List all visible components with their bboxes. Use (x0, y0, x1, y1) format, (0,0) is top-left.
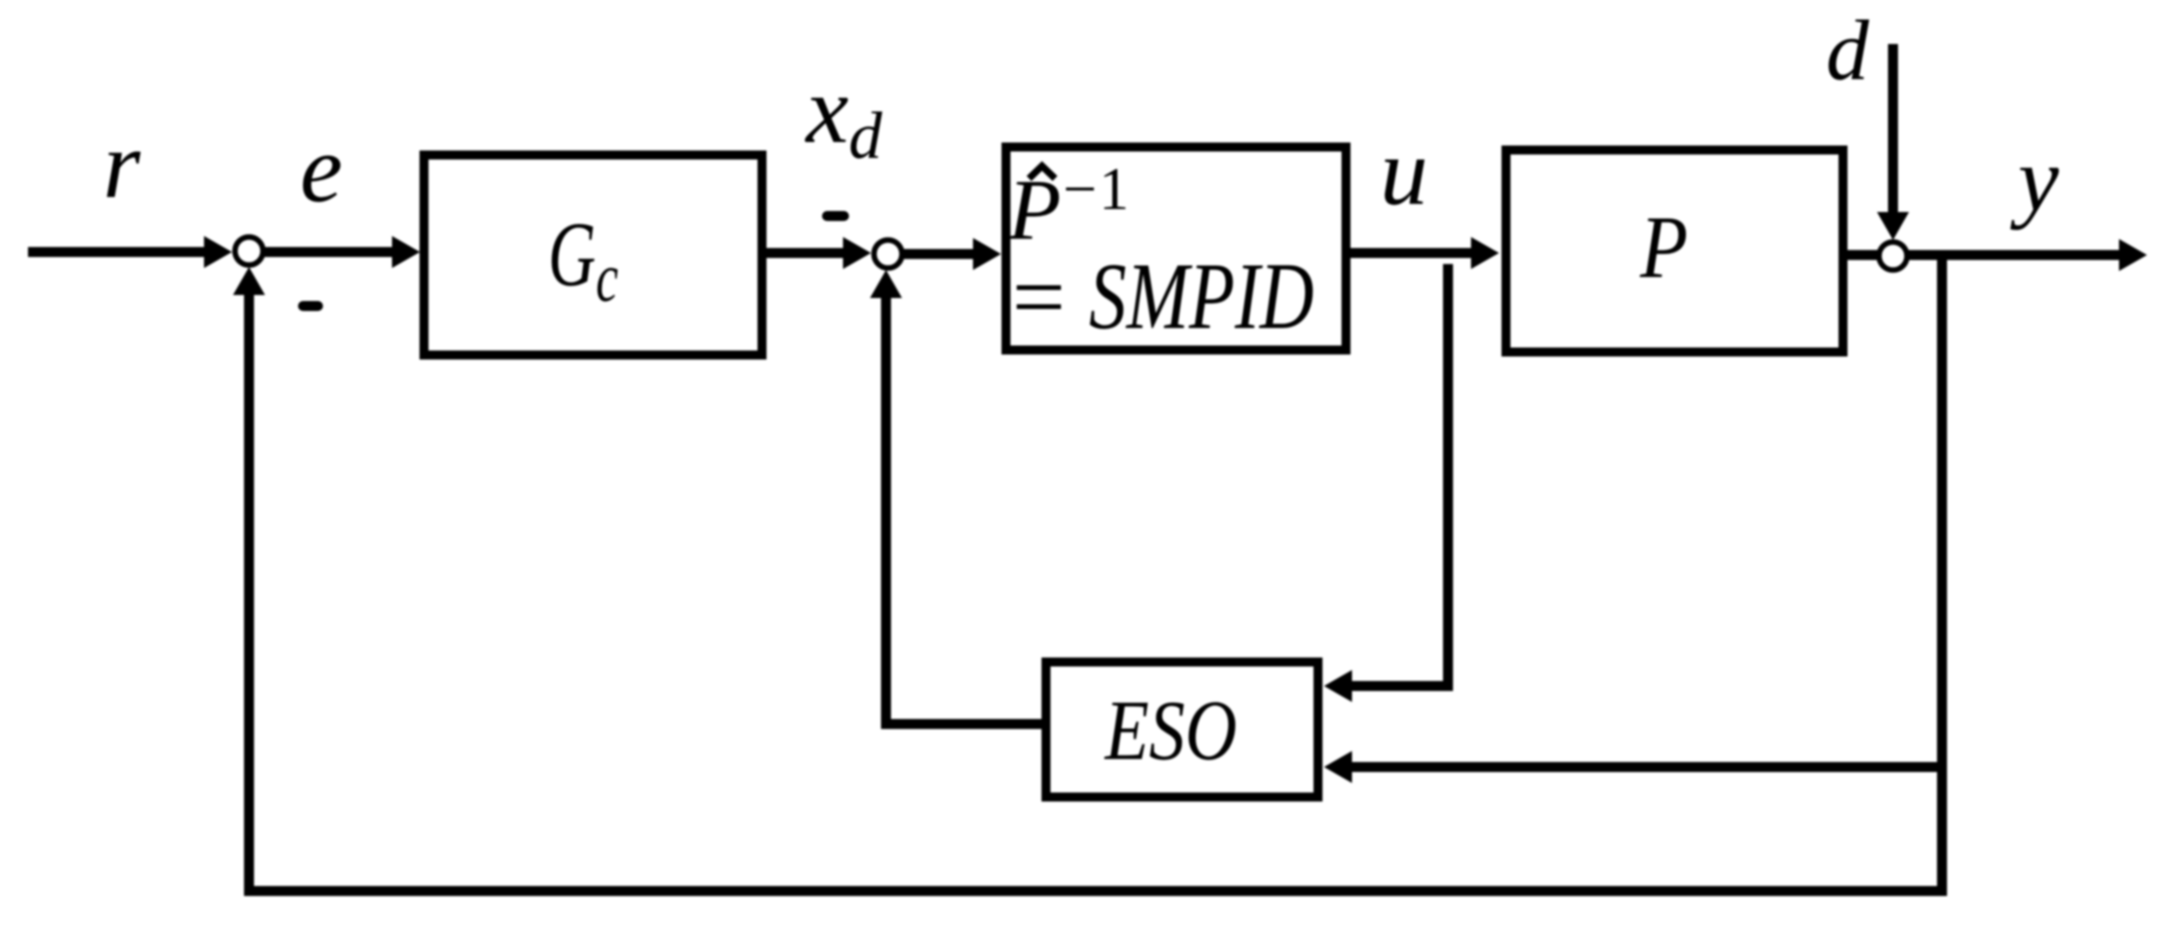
minus sign above sum2 (827, 211, 844, 221)
svg-text:=: = (1012, 244, 1066, 350)
block ESO (1046, 662, 1318, 797)
wire u branch down to ESO upper input (1352, 264, 1448, 686)
wire r input (28, 247, 206, 257)
svg-text:e: e (300, 115, 343, 222)
arrowhead into SMPID (973, 238, 1001, 270)
block P (1506, 150, 1843, 352)
svg-text:P: P (1639, 198, 1688, 297)
arrowhead ESO-loop up into sum2 (870, 270, 902, 298)
arrowhead d into sum3 (1877, 212, 1909, 240)
wire ESO output to sum2 (886, 296, 1046, 724)
arrowhead y output tip (2119, 239, 2147, 271)
summing junction sum1 (235, 237, 263, 265)
hat accent (1029, 166, 1055, 179)
arrowhead feedback up into sum1 (233, 267, 265, 295)
svg-text:d: d (1826, 2, 1870, 98)
wire y output (1844, 250, 2121, 260)
svg-text:SMPID: SMPID (1089, 243, 1314, 349)
wire e: sum1 to Gc (264, 247, 394, 257)
summing junction sum3 (d) (1879, 242, 1907, 270)
svg-text:y: y (2010, 128, 2059, 230)
block Gc (424, 155, 762, 355)
block P^-1 = SMPID (1006, 147, 1346, 350)
arrowhead u into P (1471, 237, 1499, 269)
svg-text:ESO: ESO (1103, 682, 1237, 778)
wire Gc to sum2 (762, 248, 845, 258)
wire sum2 to SMPID (904, 249, 975, 259)
arrowhead into ESO lower input (1324, 751, 1352, 783)
minus sign below sum1 (303, 301, 318, 311)
arrowhead r into sum1 (204, 236, 232, 268)
wire u: SMPID to P (1348, 248, 1473, 258)
arrowhead into sum2 (843, 237, 871, 269)
arrowhead e into Gc (392, 236, 420, 268)
summing junction sum2 (874, 240, 902, 268)
svg-text:−1: −1 (1063, 156, 1129, 222)
svg-text:u: u (1380, 118, 1428, 225)
label P (1639, 198, 1688, 297)
wire outer feedback: tap down, bottom, up-left (249, 255, 1942, 891)
label Gc (548, 205, 618, 317)
svg-text:r: r (103, 111, 141, 218)
wire d arrow shaft (1888, 44, 1898, 214)
wire y branch to ESO lower input (1352, 762, 1942, 772)
arrowhead into ESO upper input (1324, 670, 1352, 702)
